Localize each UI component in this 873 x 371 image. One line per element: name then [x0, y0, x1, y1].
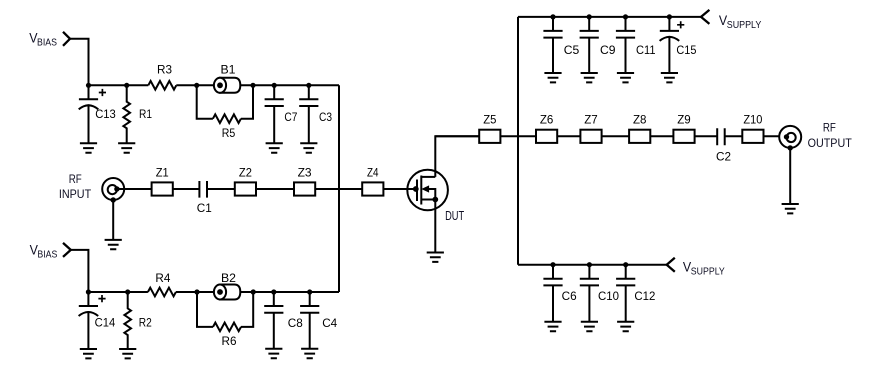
resistor R1 [123, 85, 130, 143]
ground (C13) [80, 143, 97, 152]
network Z9 [673, 130, 694, 143]
ground (R2) [119, 349, 136, 358]
network Z4 [362, 182, 383, 195]
junction: gate [413, 186, 419, 192]
svg-text:RF: RF [823, 121, 836, 135]
capacitor C12 [616, 265, 635, 322]
junction: R3-B1-R5 [194, 83, 199, 88]
network Z6 [536, 130, 557, 143]
network Z3 [294, 182, 315, 195]
svg-text:C11: C11 [636, 43, 656, 57]
svg-text:C4: C4 [322, 316, 337, 330]
junction: C9 [587, 14, 592, 19]
ferrite bead B2 [214, 285, 240, 300]
svg-text:Z9: Z9 [677, 112, 691, 126]
wire RF INPUT ground stub [112, 200, 114, 240]
svg-text:R5: R5 [222, 126, 236, 140]
plus sign C14 [98, 295, 105, 302]
arrow VSUPPLY (bottom) [667, 258, 675, 272]
svg-text:R1: R1 [139, 107, 152, 121]
capacitor C15 (polarized) [660, 17, 680, 73]
svg-text:C9: C9 [600, 43, 616, 57]
svg-text:C13: C13 [95, 107, 116, 121]
label RF INPUT [59, 172, 92, 201]
arrow VBIAS (top) [63, 32, 70, 46]
wire bias vertical line (top rail to bottom rail, crosses input line) [338, 85, 340, 292]
junction: C10 [587, 262, 592, 267]
wire input line (connector to C1 left plate) [117, 188, 200, 190]
svg-text:RF: RF [69, 172, 82, 186]
ground (C4) [301, 349, 318, 358]
wire DUT source to ground [434, 200, 436, 253]
svg-text:Z5: Z5 [483, 112, 496, 126]
svg-text:C14: C14 [95, 315, 116, 329]
wire input line (C1 right plate to DUT gate) [207, 188, 416, 190]
connector RF OUTPUT [779, 126, 801, 151]
svg-text:Z2: Z2 [239, 165, 252, 179]
svg-text:C2: C2 [716, 150, 731, 164]
svg-text:B2: B2 [221, 271, 236, 285]
capacitor C11 [616, 17, 635, 73]
svg-text:OUTPUT: OUTPUT [808, 136, 853, 150]
arrow VBIAS (bottom) [63, 243, 71, 257]
ground (C14) [80, 349, 97, 358]
resistor R4 [148, 288, 176, 297]
ferrite bead B1 [214, 78, 240, 93]
port VBIAS (bottom) [30, 241, 58, 260]
svg-text:Z7: Z7 [584, 112, 598, 126]
svg-text:Z10: Z10 [743, 112, 762, 126]
svg-text:R4: R4 [155, 271, 170, 285]
junction: C11 [623, 14, 628, 19]
junction: C6 [550, 262, 555, 267]
svg-text:INPUT: INPUT [59, 187, 92, 201]
plus sign C15 [677, 21, 684, 28]
ground (RF OUTPUT) [782, 204, 799, 213]
capacitor C10 [580, 265, 599, 322]
svg-text:C1: C1 [197, 201, 212, 215]
svg-text:BIAS: BIAS [37, 38, 57, 49]
svg-text:C6: C6 [562, 289, 577, 303]
junction: R1 [124, 83, 129, 88]
network Z10 [742, 130, 763, 143]
ground (C7) [266, 143, 283, 152]
port VSUPPLY (bottom) [683, 259, 725, 278]
wire VBIAS bottom to bias rail [71, 250, 89, 292]
junction: C8 [271, 289, 276, 294]
wire R6 parallel loop [197, 292, 253, 327]
resistor R6 [213, 323, 241, 332]
svg-text:C5: C5 [564, 43, 580, 57]
ground (C9) [581, 73, 598, 82]
capacitor C1 (series) [199, 181, 207, 198]
ground (RF INPUT) [105, 240, 122, 249]
svg-text:C3: C3 [319, 110, 332, 124]
label RF OUTPUT [808, 121, 853, 150]
svg-text:SUPPLY: SUPPLY [691, 267, 725, 278]
junction: C15 [667, 14, 672, 19]
ground (DUT source) [427, 253, 444, 262]
wire supply vertical line (crosses output line) [517, 17, 519, 265]
junction: R2 [125, 289, 130, 294]
svg-text:C10: C10 [598, 289, 619, 303]
plus sign C13 [99, 89, 106, 96]
capacitor C2 (series) [717, 128, 725, 145]
capacitor C6 [543, 265, 562, 322]
wire R5 parallel loop [197, 85, 253, 118]
wire VBIAS top to bias rail [70, 39, 89, 86]
transistor DUT (MOSFET) [407, 170, 448, 211]
wire output line (drain corner to C2 left plate) [435, 135, 717, 137]
svg-text:Z1: Z1 [156, 165, 169, 179]
svg-text:C15: C15 [676, 43, 696, 57]
svg-text:BIAS: BIAS [37, 250, 57, 261]
ground (C5) [544, 73, 561, 82]
junction: R4-B2-R6 [194, 289, 199, 294]
ground (C15) [661, 73, 678, 82]
network Z8 [629, 130, 650, 143]
capacitor C14 (polarized) [79, 292, 99, 349]
wire top supply rail [518, 16, 701, 18]
network Z7 [580, 130, 601, 143]
svg-text:R3: R3 [157, 62, 172, 76]
junction: C7 [272, 83, 277, 88]
resistor R2 [124, 292, 131, 349]
capacitor C13 (polarized) [79, 85, 99, 143]
svg-text:C8: C8 [288, 316, 303, 330]
junction: C3 [306, 83, 311, 88]
ground (C8) [265, 349, 282, 358]
resistor R3 [148, 81, 176, 90]
ground (C6) [544, 322, 561, 331]
ground (C10) [581, 322, 598, 331]
wire DUT drain to output line [435, 136, 479, 177]
wire bottom bias rail [88, 291, 339, 293]
connector RF INPUT [102, 178, 124, 203]
junction: VBIAS top / C13 [86, 83, 91, 88]
capacitor C5 [543, 17, 562, 73]
svg-text:Z4: Z4 [367, 165, 379, 179]
junction: C4 [307, 289, 312, 294]
svg-text:DUT: DUT [445, 208, 464, 223]
wire output line (C2 right plate to RF OUTPUT) [725, 135, 786, 137]
svg-text:Z3: Z3 [298, 165, 312, 179]
capacitor C4 [300, 292, 319, 349]
ground (R1) [118, 143, 135, 152]
junction: B2-R6 right [251, 289, 256, 294]
svg-text:R6: R6 [222, 334, 237, 348]
arrow VSUPPLY (top) [701, 10, 709, 24]
capacitor C8 [264, 292, 283, 349]
svg-text:Z6: Z6 [540, 112, 554, 126]
ground (C12) [617, 322, 634, 331]
network Z5 [479, 130, 500, 143]
junction: C12 [623, 262, 628, 267]
junction: B1-R5 right [250, 83, 255, 88]
wire top bias rail [89, 84, 340, 86]
network Z2 [235, 182, 256, 195]
capacitor C7 [265, 85, 284, 143]
junction: VBIAS bottom / C14 [86, 289, 91, 294]
svg-text:C7: C7 [284, 110, 297, 124]
port VSUPPLY (top) [719, 12, 762, 31]
svg-text:C12: C12 [634, 289, 655, 303]
ground (C3) [300, 143, 317, 152]
wire RF OUTPUT ground stub [789, 148, 791, 204]
svg-text:Z8: Z8 [633, 112, 647, 126]
junction: source-body [432, 197, 438, 203]
port VBIAS (top) [29, 30, 57, 49]
capacitor C3 [299, 85, 318, 143]
network Z1 [152, 182, 173, 195]
resistor R5 [213, 114, 241, 123]
svg-text:R2: R2 [139, 315, 152, 329]
capacitor C9 [580, 17, 599, 73]
svg-text:SUPPLY: SUPPLY [727, 20, 762, 31]
wire bottom supply rail [518, 264, 667, 266]
svg-text:B1: B1 [221, 62, 236, 76]
junction: C5 [550, 14, 555, 19]
ground (C11) [617, 73, 634, 82]
